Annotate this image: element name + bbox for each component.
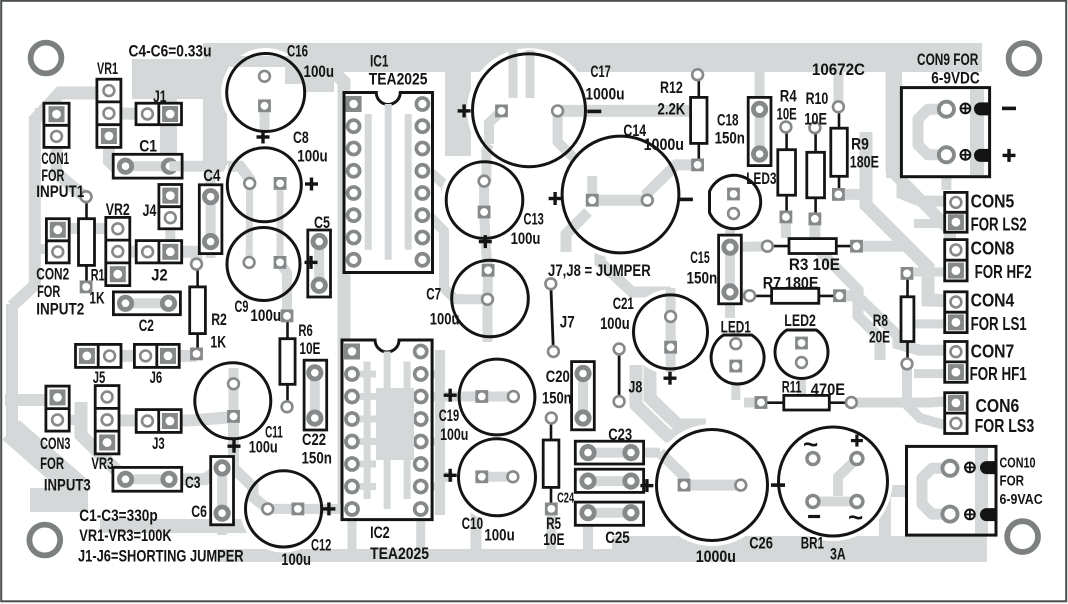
svg-text:10E: 10E bbox=[543, 530, 564, 549]
svg-text:LED2: LED2 bbox=[784, 311, 816, 330]
svg-text:FOR: FOR bbox=[37, 282, 60, 301]
svg-text:BR1: BR1 bbox=[801, 534, 824, 553]
svg-text:IC1: IC1 bbox=[370, 52, 389, 71]
svg-text:C20: C20 bbox=[546, 367, 570, 386]
svg-text:C26: C26 bbox=[749, 534, 773, 553]
svg-text:C15: C15 bbox=[690, 248, 709, 267]
svg-text:100u: 100u bbox=[440, 425, 468, 444]
svg-text:~: ~ bbox=[848, 502, 863, 532]
svg-text:1000u: 1000u bbox=[696, 547, 736, 566]
svg-text:FOR HF1: FOR HF1 bbox=[970, 363, 1027, 384]
svg-text:C13: C13 bbox=[524, 210, 544, 229]
svg-text:1K: 1K bbox=[89, 288, 105, 307]
svg-text:10672C: 10672C bbox=[812, 60, 865, 79]
svg-text:J5: J5 bbox=[93, 368, 106, 387]
svg-text:J6: J6 bbox=[150, 368, 163, 387]
svg-text:C21: C21 bbox=[613, 294, 634, 313]
svg-text:J1: J1 bbox=[153, 87, 166, 106]
svg-text:1000u: 1000u bbox=[585, 85, 624, 104]
svg-text:10E: 10E bbox=[804, 110, 827, 129]
svg-text:C8: C8 bbox=[293, 128, 309, 147]
svg-text:J2: J2 bbox=[151, 266, 167, 285]
svg-text:2.2K: 2.2K bbox=[658, 100, 686, 119]
svg-text:100u: 100u bbox=[281, 550, 311, 569]
svg-text:LED3: LED3 bbox=[746, 169, 776, 188]
svg-text:R1: R1 bbox=[91, 266, 105, 285]
svg-text:150n: 150n bbox=[687, 269, 718, 288]
svg-text:TEA2025: TEA2025 bbox=[370, 544, 429, 563]
svg-text:6-9VAC: 6-9VAC bbox=[1000, 492, 1044, 508]
svg-text:J7: J7 bbox=[560, 312, 575, 331]
svg-text:CON7: CON7 bbox=[971, 340, 1015, 361]
svg-text:CON1: CON1 bbox=[41, 149, 69, 168]
svg-text:100u: 100u bbox=[297, 146, 327, 165]
svg-text:CON9 FOR: CON9 FOR bbox=[917, 50, 978, 69]
svg-text:100u: 100u bbox=[511, 229, 541, 248]
svg-text:C3: C3 bbox=[185, 473, 201, 492]
svg-text:150n: 150n bbox=[302, 448, 332, 467]
svg-text:C10: C10 bbox=[462, 514, 484, 533]
svg-text:C1: C1 bbox=[139, 137, 157, 156]
svg-text:R2: R2 bbox=[211, 310, 227, 329]
svg-text:IC2: IC2 bbox=[370, 523, 390, 542]
svg-text:C25: C25 bbox=[605, 528, 630, 547]
svg-text:J7,J8 = JUMPER: J7,J8 = JUMPER bbox=[548, 261, 651, 280]
svg-text:INPUT1: INPUT1 bbox=[36, 182, 84, 201]
svg-text:100u: 100u bbox=[304, 62, 335, 81]
svg-text:C23: C23 bbox=[608, 425, 632, 444]
svg-text:VR3: VR3 bbox=[91, 454, 113, 473]
svg-text:180E: 180E bbox=[850, 152, 879, 171]
svg-text:CON10: CON10 bbox=[1000, 455, 1036, 471]
svg-text:INPUT2: INPUT2 bbox=[36, 300, 84, 319]
svg-text:VR1: VR1 bbox=[97, 59, 118, 78]
svg-text:LED1: LED1 bbox=[721, 317, 751, 336]
svg-text:C7: C7 bbox=[426, 284, 441, 303]
svg-text:FOR LS1: FOR LS1 bbox=[971, 313, 1027, 334]
svg-text:CON3: CON3 bbox=[40, 434, 70, 453]
svg-text:C9: C9 bbox=[235, 297, 249, 316]
svg-text:C4: C4 bbox=[203, 166, 221, 185]
svg-text:C5: C5 bbox=[314, 213, 330, 232]
svg-text:C22: C22 bbox=[302, 430, 326, 449]
svg-text:C4-C6=0.33u: C4-C6=0.33u bbox=[129, 42, 212, 61]
svg-text:FOR LS3: FOR LS3 bbox=[975, 415, 1035, 436]
svg-text:J8: J8 bbox=[628, 377, 642, 396]
svg-text:C12: C12 bbox=[311, 536, 331, 555]
svg-text:FOR LS2: FOR LS2 bbox=[971, 214, 1027, 235]
svg-text:J3: J3 bbox=[152, 434, 165, 453]
svg-text:1K: 1K bbox=[210, 333, 226, 352]
svg-text:R9: R9 bbox=[851, 135, 869, 154]
svg-text:150n: 150n bbox=[715, 128, 745, 147]
svg-text:J1-J6=SHORTING JUMPER: J1-J6=SHORTING JUMPER bbox=[78, 546, 244, 565]
svg-text:100u: 100u bbox=[484, 525, 514, 544]
svg-text:C24: C24 bbox=[557, 491, 574, 507]
svg-text:CON2: CON2 bbox=[36, 264, 69, 283]
svg-text:6-9VDC: 6-9VDC bbox=[931, 68, 979, 87]
svg-text:C18: C18 bbox=[717, 111, 739, 130]
svg-text:INPUT3: INPUT3 bbox=[44, 476, 91, 495]
svg-text:10E: 10E bbox=[777, 104, 797, 123]
svg-text:3A: 3A bbox=[830, 545, 846, 564]
svg-text:FOR: FOR bbox=[40, 454, 64, 473]
svg-text:VR1-VR3=100K: VR1-VR3=100K bbox=[79, 526, 172, 545]
svg-text:J4: J4 bbox=[143, 201, 157, 220]
svg-text:R6: R6 bbox=[298, 321, 312, 340]
svg-text:FOR: FOR bbox=[1000, 474, 1025, 490]
svg-text:10E: 10E bbox=[299, 339, 320, 358]
svg-text:100u: 100u bbox=[430, 310, 460, 329]
svg-text:C19: C19 bbox=[439, 406, 459, 425]
svg-text:CON8: CON8 bbox=[971, 238, 1015, 259]
svg-text:C16: C16 bbox=[287, 42, 308, 61]
svg-text:~: ~ bbox=[803, 429, 818, 459]
svg-text:20E: 20E bbox=[869, 328, 890, 347]
svg-text:R11: R11 bbox=[782, 377, 802, 396]
svg-text:TEA2025: TEA2025 bbox=[369, 69, 428, 88]
svg-text:FOR HF2: FOR HF2 bbox=[975, 261, 1032, 282]
svg-text:100u: 100u bbox=[249, 438, 278, 457]
svg-text:C1-C3=330p: C1-C3=330p bbox=[79, 506, 157, 525]
svg-text:C6: C6 bbox=[191, 502, 207, 521]
svg-text:100u: 100u bbox=[250, 306, 281, 325]
svg-text:470E: 470E bbox=[811, 380, 845, 399]
svg-text:CON5: CON5 bbox=[971, 190, 1015, 211]
svg-text:C2: C2 bbox=[139, 316, 154, 335]
svg-text:CON4: CON4 bbox=[971, 290, 1015, 311]
svg-text:150n: 150n bbox=[542, 388, 572, 407]
svg-text:R7 180E: R7 180E bbox=[763, 274, 819, 293]
svg-text:C17: C17 bbox=[591, 62, 611, 81]
svg-text:CON6: CON6 bbox=[976, 395, 1020, 416]
svg-text:R10: R10 bbox=[806, 89, 829, 108]
svg-text:R4: R4 bbox=[780, 87, 797, 106]
svg-text:R12: R12 bbox=[660, 78, 683, 97]
svg-text:100u: 100u bbox=[600, 314, 630, 333]
svg-text:VR2: VR2 bbox=[106, 200, 130, 219]
svg-text:1000u: 1000u bbox=[644, 135, 684, 154]
svg-text:R3 10E: R3 10E bbox=[789, 255, 840, 274]
